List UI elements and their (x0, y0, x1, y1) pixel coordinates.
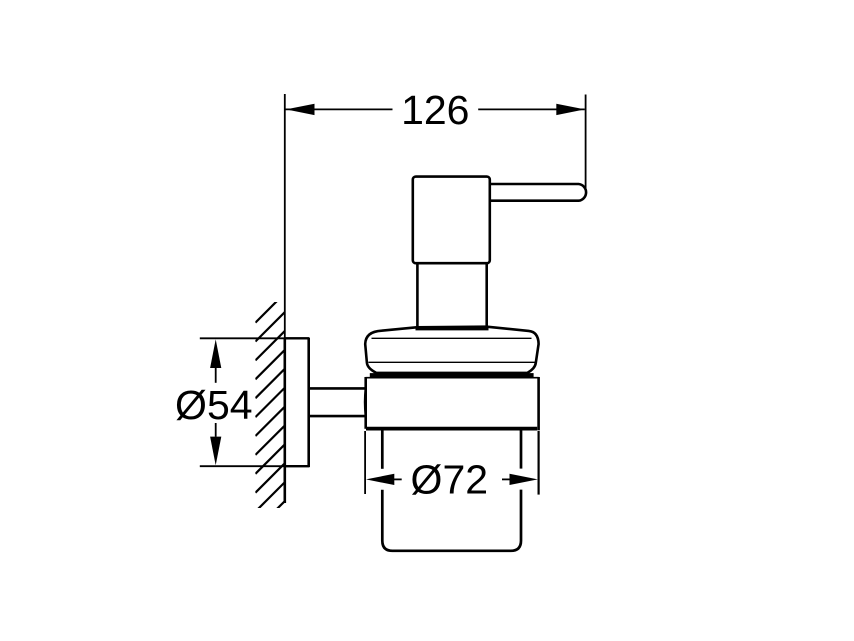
lid lower edge line (368, 361, 535, 363)
glass left wall upper segment (381, 430, 384, 468)
dimension 126 right extension line (585, 95, 587, 189)
pump neck left edge (416, 263, 419, 328)
svg-text:Ø54: Ø54 (175, 382, 253, 428)
lid top face edge line (372, 337, 532, 339)
dimension 126 line right segment (478, 108, 585, 110)
diameter 72 left arrowhead (366, 474, 394, 485)
diameter 54 bottom tail line (215, 423, 217, 437)
diameter 72 right tail line (502, 478, 510, 480)
diameter 72 left extension line (364, 431, 366, 494)
pump spout (489, 184, 586, 201)
svg-text:Ø72: Ø72 (411, 456, 489, 502)
holder right edge (537, 377, 540, 430)
diameter 54 top extension line (200, 337, 309, 339)
dimension 126 left arrowhead (286, 104, 315, 115)
wall face line (283, 338, 286, 503)
holder top edge (366, 377, 539, 379)
pump head (413, 177, 490, 264)
diameter 72 right arrowhead (510, 474, 538, 485)
bottle lid (365, 327, 538, 373)
diameter 54 bottom arrowhead (210, 437, 221, 466)
holder left edge bulge at arm joint (364, 388, 367, 416)
diameter 72 left tail line (394, 478, 402, 480)
glass right wall upper segment (520, 430, 523, 468)
diameter 54 bottom extension line (200, 465, 309, 467)
glass body lower outline (382, 490, 521, 551)
diameter 54 top tail line (215, 368, 217, 383)
dimension 126 right arrowhead (556, 104, 585, 115)
mount plate right edge (307, 338, 310, 467)
wall hatching (255, 283, 295, 531)
gasket band (370, 373, 534, 378)
svg-text:126: 126 (401, 87, 469, 133)
dimension 126 left extension line (284, 94, 286, 339)
dimension 126 line left segment (286, 108, 393, 110)
diameter 54 top arrowhead (210, 339, 221, 368)
mount plate bottom edge (284, 465, 310, 467)
holder bottom edge (366, 427, 537, 431)
holder arm bottom edge (309, 415, 366, 418)
mount plate top edge (284, 337, 310, 339)
pump neck right edge (485, 263, 488, 328)
holder left edge (364, 377, 367, 429)
diameter 72 right extension line (537, 431, 539, 495)
lid rim dark bar behind neck base (416, 327, 489, 331)
holder arm top edge (309, 387, 366, 390)
